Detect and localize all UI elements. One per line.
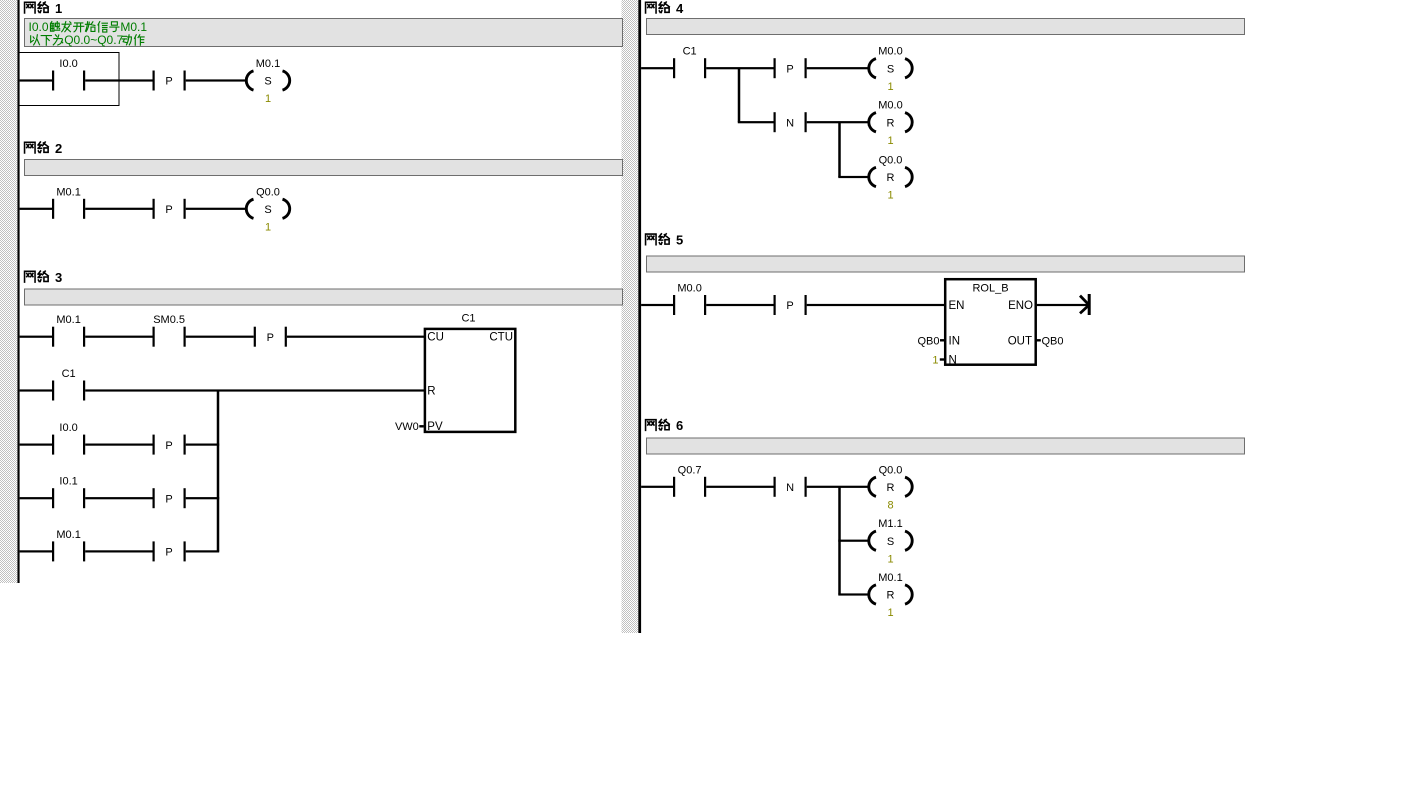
svg-text:1: 1 <box>887 553 893 565</box>
svg-text:1: 1 <box>887 135 893 147</box>
svg-text:8: 8 <box>887 499 893 511</box>
svg-text:C1: C1 <box>62 368 76 380</box>
svg-text:ENO: ENO <box>1008 300 1033 312</box>
svg-text:1: 1 <box>887 190 893 202</box>
svg-text:R: R <box>887 172 895 184</box>
svg-text:IN: IN <box>949 335 961 347</box>
svg-text:QB0: QB0 <box>1042 335 1064 347</box>
svg-text:P: P <box>165 76 172 88</box>
svg-text:1: 1 <box>265 93 271 105</box>
svg-text:M0.1: M0.1 <box>56 186 80 198</box>
svg-text:1: 1 <box>55 1 62 16</box>
svg-text:N: N <box>786 482 794 494</box>
svg-text:R: R <box>887 590 895 602</box>
svg-text:I0.0: I0.0 <box>59 422 77 434</box>
svg-text:CU: CU <box>427 332 444 344</box>
svg-text:CTU: CTU <box>489 332 513 344</box>
svg-text:I0.0: I0.0 <box>29 20 49 34</box>
svg-text:N: N <box>949 355 957 367</box>
svg-text:QB0: QB0 <box>917 335 939 347</box>
svg-text:M0.0: M0.0 <box>878 100 902 112</box>
svg-text:Q0.0: Q0.0 <box>879 464 903 476</box>
svg-text:VW0: VW0 <box>395 421 419 433</box>
svg-text:Q0.0: Q0.0 <box>879 155 903 167</box>
svg-text:P: P <box>786 300 793 312</box>
svg-text:M0.1: M0.1 <box>120 20 147 34</box>
svg-text:PV: PV <box>427 421 443 433</box>
svg-text:S: S <box>887 536 894 548</box>
svg-text:1: 1 <box>265 221 271 233</box>
svg-text:S: S <box>264 76 271 88</box>
svg-text:I0.1: I0.1 <box>59 476 77 488</box>
svg-text:ROL_B: ROL_B <box>972 282 1008 294</box>
svg-text:N: N <box>786 117 794 129</box>
svg-text:3: 3 <box>55 270 62 285</box>
svg-text:S: S <box>264 204 271 216</box>
svg-text:S: S <box>887 63 894 75</box>
svg-text:M0.1: M0.1 <box>56 529 80 541</box>
svg-text:P: P <box>267 332 274 344</box>
svg-text:Q0.0~Q0.7: Q0.0~Q0.7 <box>64 33 123 47</box>
svg-text:M0.0: M0.0 <box>677 283 701 295</box>
svg-text:M1.1: M1.1 <box>878 518 902 530</box>
svg-text:2: 2 <box>55 141 62 156</box>
svg-text:5: 5 <box>676 233 683 248</box>
svg-text:M0.0: M0.0 <box>878 46 902 58</box>
svg-text:P: P <box>165 440 172 452</box>
svg-text:1: 1 <box>887 607 893 619</box>
svg-text:M0.1: M0.1 <box>56 314 80 326</box>
svg-text:Q0.7: Q0.7 <box>678 464 702 476</box>
svg-text:1: 1 <box>887 81 893 93</box>
svg-text:P: P <box>165 204 172 216</box>
svg-text:P: P <box>165 493 172 505</box>
svg-text:6: 6 <box>676 418 683 433</box>
svg-text:P: P <box>786 63 793 75</box>
svg-text:OUT: OUT <box>1008 335 1032 347</box>
svg-text:SM0.5: SM0.5 <box>153 314 185 326</box>
svg-text:C1: C1 <box>683 46 697 58</box>
svg-text:4: 4 <box>676 1 684 16</box>
svg-text:M0.1: M0.1 <box>878 572 902 584</box>
svg-text:I0.0: I0.0 <box>59 58 77 70</box>
svg-text:Q0.0: Q0.0 <box>256 186 280 198</box>
svg-text:EN: EN <box>949 300 965 312</box>
svg-text:P: P <box>165 547 172 559</box>
svg-text:R: R <box>887 482 895 494</box>
svg-text:M0.1: M0.1 <box>256 58 280 70</box>
svg-text:1: 1 <box>932 355 938 367</box>
svg-text:R: R <box>427 386 435 398</box>
svg-text:R: R <box>887 117 895 129</box>
svg-text:C1: C1 <box>461 313 475 325</box>
